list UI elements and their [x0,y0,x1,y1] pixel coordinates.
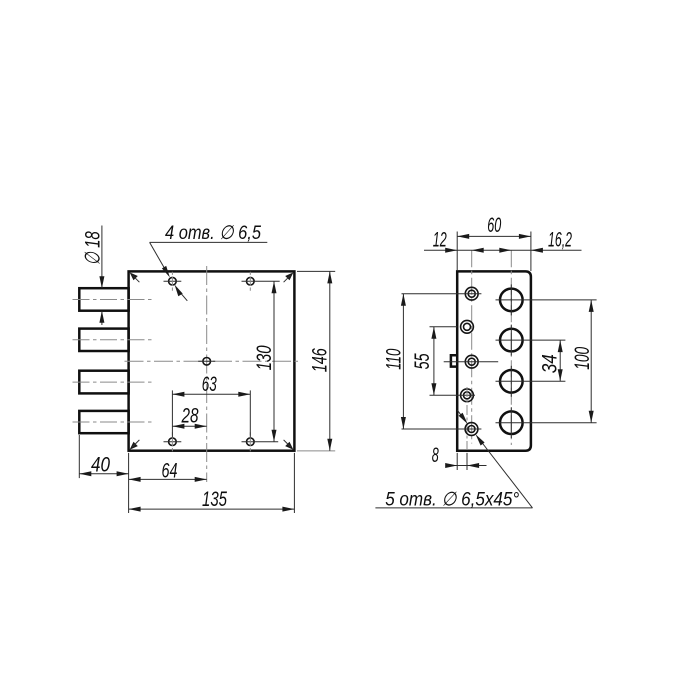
svg-text:28: 28 [181,405,199,428]
main horizontal axis [125,360,300,362]
dimension 135 [129,453,295,513]
dimension 55 [411,327,436,396]
countersunk hole 3 [444,355,499,368]
left hole column centerline [471,250,473,443]
boss 1 [79,288,128,311]
dimension 34 [539,340,563,381]
dimension 130 [253,281,277,442]
hole top-right [242,272,280,291]
svg-text:64: 64 [162,459,178,482]
svg-text:16,2: 16,2 [548,228,572,251]
RIGHT VIEW [375,214,596,510]
boss 2 [79,329,128,351]
dimension 64 [129,459,207,482]
svg-text:63: 63 [202,373,217,396]
hole center [198,358,215,366]
hole 4 offset [430,387,476,449]
dimension dia 18 [81,226,104,326]
side plate outline [457,271,531,450]
hole bottom-left [164,432,182,451]
corner mark top-right [284,272,294,282]
svg-text:146: 146 [308,348,331,372]
dimension 40 [79,435,128,513]
dimension 60 [457,214,531,271]
LEFT VIEW [73,222,336,513]
svg-text:55: 55 [411,353,434,369]
leader callout 5 holes dia 6.5x45 [375,410,532,510]
boss 4 centerline [73,421,152,423]
countersunk hole 1 [402,287,482,300]
svg-text:110: 110 [383,349,406,370]
hole 2 offset [430,320,474,333]
svg-text:∅ 18: ∅ 18 [81,231,104,265]
svg-text:12: 12 [433,228,447,251]
dimension 12 and 16,2 [424,228,582,252]
svg-text:100: 100 [571,347,594,370]
bore circle 2 [496,325,566,356]
boss 2 centerline [73,339,152,341]
dimension 28 [172,405,206,429]
svg-text:135: 135 [202,488,227,511]
plate body outline [129,271,295,450]
corner mark bottom-left [130,440,140,450]
boss 3 centerline [73,381,152,383]
dimension 8 [432,444,487,470]
dimension 146 [297,271,335,451]
svg-text:34: 34 [539,354,562,373]
svg-text:8: 8 [432,444,439,467]
svg-text:4 отв. ∅ 6,5: 4 отв. ∅ 6,5 [165,222,261,244]
corner mark bottom-right [284,440,294,450]
svg-text:130: 130 [253,345,276,370]
boss 1 centerline [73,299,152,301]
main vertical centerline [206,266,208,482]
bore circle 3 [496,366,566,397]
leader callout 4 holes dia 6.5 [150,222,268,301]
bore circle 1 [496,284,597,315]
hole bottom-right [242,432,279,451]
latch tab on left edge [451,355,457,366]
svg-text:60: 60 [487,214,501,237]
dimension 63 [172,373,250,437]
corner mark top-left [130,272,140,282]
svg-text:5 отв. ∅ 6,5x45°: 5 отв. ∅ 6,5x45° [385,488,519,510]
countersunk hole 5 [402,423,482,436]
hole top-left [164,272,182,291]
bore circle 4 [496,407,597,438]
boss 3 [79,371,128,394]
dimension 110 [383,294,406,429]
boss 4 [79,411,128,433]
right hole column centerline [510,250,512,445]
dimension 100 [571,300,594,423]
svg-text:40: 40 [91,454,110,477]
